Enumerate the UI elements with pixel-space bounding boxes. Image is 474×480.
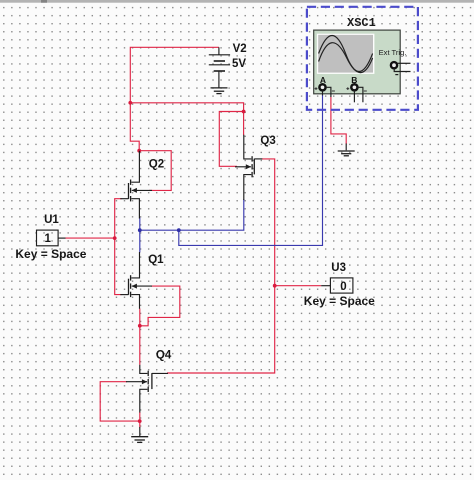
node VDD junction at Q2 drain <box>137 149 141 153</box>
scope trace 1 <box>319 36 373 72</box>
svg-text:Key = Space: Key = Space <box>15 247 86 261</box>
node junction at Q4 source <box>138 419 142 423</box>
node blue junction 1 <box>138 228 142 232</box>
wire scope A- to ground <box>331 97 346 145</box>
switch U3 box <box>330 278 353 293</box>
wire blue to scope A+ <box>179 95 323 245</box>
ground for scope <box>338 151 355 156</box>
svg-text:Ext Trig.: Ext Trig. <box>379 48 407 57</box>
svg-text:0: 0 <box>340 281 346 293</box>
node U3 net junction <box>273 284 277 288</box>
pin U3 <box>321 285 330 287</box>
transistor Q2 <box>120 151 152 219</box>
oscilloscope XSC1 selection box <box>307 7 418 110</box>
svg-text:V2: V2 <box>233 43 247 55</box>
oscilloscope screen <box>317 34 375 74</box>
battery V2 <box>209 47 230 87</box>
pin U1 <box>58 237 65 239</box>
oscilloscope body <box>314 30 401 94</box>
toolbar strip <box>0 0 474 3</box>
svg-text:5V: 5V <box>232 58 246 70</box>
svg-text:U3: U3 <box>331 262 346 274</box>
scope trace 2 <box>319 43 373 73</box>
node VDD junction at Q3 <box>242 110 246 114</box>
pin marks at A <box>315 87 335 91</box>
wire Q4 source to ground <box>139 427 141 436</box>
svg-text:Q4: Q4 <box>156 350 172 362</box>
svg-text:Q1: Q1 <box>148 254 164 266</box>
pin marks at B <box>346 87 366 91</box>
ground for V2 <box>211 88 228 94</box>
node VDD junction 1 <box>128 101 132 105</box>
transistor Q3 <box>235 135 262 200</box>
ground for Q4 <box>131 437 148 443</box>
wire U1 input net <box>65 199 121 295</box>
svg-text:XSC1: XSC1 <box>347 16 376 30</box>
terminal Ext Trig <box>391 62 397 68</box>
wire VDD rail from V2 to Q2/Q3 <box>130 47 243 190</box>
svg-text:Q3: Q3 <box>260 135 275 147</box>
terminal A <box>319 84 325 90</box>
transistor Q4 <box>126 365 168 413</box>
wire blue Q2-Q1 midpoint vertical <box>139 218 141 253</box>
terminal B <box>351 84 357 90</box>
svg-text:Key = Space: Key = Space <box>304 294 375 308</box>
node output junction at Q1 source <box>138 324 142 328</box>
wire output net Q1 body/source to Q4 drain <box>140 286 180 365</box>
svg-text:U1: U1 <box>44 214 59 226</box>
svg-text:1: 1 <box>45 233 52 245</box>
transistor Q1 <box>120 252 152 309</box>
wire scope ground lead <box>345 144 347 151</box>
wire U3 gate net Q3/Q4 <box>167 159 321 373</box>
svg-text:Q2: Q2 <box>149 159 164 171</box>
pin stubs B <box>353 90 355 102</box>
switch U1 box <box>37 230 59 246</box>
wire Q4 body tie loop <box>100 382 140 428</box>
pin stubs A <box>322 90 324 95</box>
node blue junction 2 <box>177 228 181 232</box>
node U1 net junction <box>113 236 117 240</box>
wire blue midpoint to Q3 drain <box>140 199 244 230</box>
